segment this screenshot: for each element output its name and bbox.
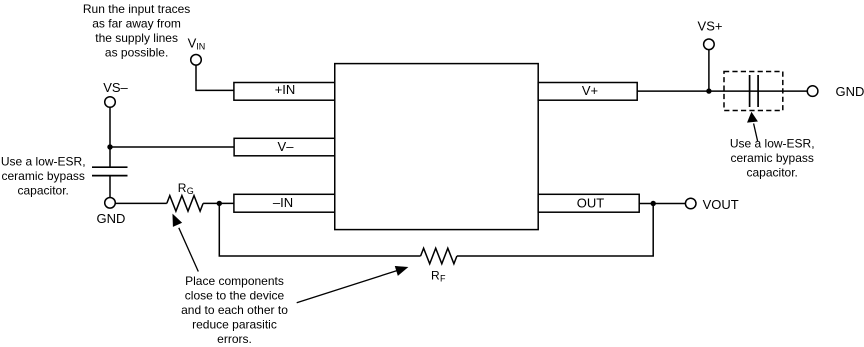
svg-text:+IN: +IN	[275, 82, 296, 97]
svg-text:close to the device: close to the device	[185, 289, 285, 303]
svg-text:reduce parasitic: reduce parasitic	[192, 318, 277, 332]
wire VIN to +IN	[196, 65, 234, 90]
wire junction to V- pin	[110, 146, 234, 148]
resistor RG	[167, 196, 203, 212]
note: run input traces	[83, 2, 190, 59]
svg-text:G: G	[187, 186, 194, 196]
svg-text:Use a low-ESR,: Use a low-ESR,	[1, 155, 86, 169]
svg-text:R: R	[178, 181, 187, 195]
svg-text:–IN: –IN	[273, 195, 293, 210]
svg-text:GND: GND	[97, 211, 126, 226]
pin trace -IN	[234, 194, 335, 212]
svg-text:VS+: VS+	[698, 18, 723, 33]
svg-text:ceramic bypass: ceramic bypass	[731, 151, 814, 165]
terminal VOUT	[685, 198, 696, 209]
svg-text:capacitor.: capacitor.	[18, 184, 69, 198]
pin trace OUT	[538, 194, 639, 212]
terminal GND (left)	[105, 198, 116, 209]
wire GND to RG	[115, 202, 167, 204]
node junction VS-/V-	[107, 144, 112, 149]
wire capacitor to GND circle	[109, 176, 111, 198]
svg-text:VOUT: VOUT	[703, 197, 739, 212]
svg-text:R: R	[431, 269, 440, 283]
note: place components close	[181, 274, 288, 346]
node junction at V+	[706, 88, 711, 93]
arrow to RG	[173, 214, 199, 271]
svg-text:V: V	[188, 36, 197, 51]
svg-text:the supply lines: the supply lines	[95, 31, 178, 45]
svg-text:as possible.: as possible.	[105, 46, 168, 60]
pin trace V+	[538, 83, 637, 101]
wire RG to -IN pin	[203, 202, 234, 204]
wire OUT pin to VOUT	[639, 203, 685, 205]
pin trace +IN	[234, 82, 335, 100]
op-amp device U1 (central box)	[335, 64, 538, 230]
node junction at OUT	[651, 201, 656, 206]
wire VS- down to capacitor	[109, 107, 111, 166]
terminal VS-	[105, 97, 116, 108]
svg-text:Place components: Place components	[185, 274, 284, 288]
label VIN	[188, 36, 206, 52]
wire junction down and right to RF	[219, 203, 420, 256]
label RF	[431, 269, 446, 284]
svg-text:as far away from: as far away from	[92, 17, 181, 31]
pin trace V-	[234, 138, 335, 156]
resistor RF	[421, 248, 457, 264]
arrow to RF	[297, 266, 408, 303]
svg-text:errors.: errors.	[217, 332, 252, 346]
note: low-ESR capacitor (right)	[730, 136, 815, 179]
svg-text:Use a low-ESR,: Use a low-ESR,	[730, 136, 815, 150]
label RG	[178, 181, 194, 196]
capacitor C2 (right bypass)	[750, 75, 759, 107]
terminal VIN	[191, 55, 202, 66]
svg-text:and to each other to: and to each other to	[181, 303, 288, 317]
dashed box around bypass capacitor	[724, 72, 783, 111]
wire V+ pin to GND (right)	[637, 90, 807, 92]
svg-text:capacitor.: capacitor.	[747, 165, 798, 179]
svg-text:V+: V+	[582, 83, 598, 98]
terminal VS+	[704, 39, 715, 50]
arrow to bypass capacitor (right)	[748, 112, 758, 141]
svg-text:OUT: OUT	[577, 196, 605, 211]
svg-text:F: F	[440, 274, 446, 284]
svg-text:GND: GND	[836, 84, 864, 99]
note: low-ESR capacitor (left)	[1, 155, 86, 198]
svg-text:ceramic bypass: ceramic bypass	[2, 169, 85, 183]
svg-text:VS–: VS–	[103, 80, 128, 95]
capacitor C1 (left bypass)	[92, 167, 128, 175]
wire RF to output node	[457, 204, 653, 257]
wire VS+ down to V+ rail	[708, 50, 710, 92]
node junction at -IN	[217, 201, 222, 206]
svg-text:Run the input traces: Run the input traces	[83, 2, 190, 16]
svg-text:IN: IN	[196, 41, 205, 51]
svg-text:V–: V–	[278, 139, 295, 154]
terminal GND (right)	[807, 86, 818, 97]
